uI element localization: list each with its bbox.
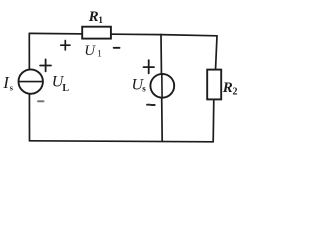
svg-text:U: U (84, 43, 96, 59)
wire top (29, 33, 217, 35)
resistor R1 (82, 27, 111, 39)
label R1 (88, 9, 104, 26)
label - of current source (38, 100, 44, 102)
wire middle (161, 35, 162, 142)
label - of voltage source (147, 104, 155, 106)
label R2 (222, 80, 238, 98)
label UL (52, 74, 70, 94)
voltage source Us (circle with vertical line) (150, 74, 174, 98)
wire bottom (30, 141, 214, 142)
current source Is (circle with horizontal bar) (19, 69, 43, 93)
wire left (28, 33, 30, 140)
svg-text:1: 1 (97, 49, 102, 59)
svg-text:R: R (88, 9, 99, 25)
wire right (213, 36, 217, 142)
label - of U1 (114, 47, 120, 49)
svg-text:1: 1 (98, 16, 103, 26)
label + of voltage source (144, 60, 155, 73)
svg-text:2: 2 (233, 87, 238, 98)
label + of U1 (61, 41, 70, 50)
label Is (2, 73, 13, 93)
svg-text:s: s (142, 84, 146, 94)
label + of current source (40, 59, 51, 71)
label Us (132, 76, 147, 93)
svg-text:R: R (222, 80, 233, 96)
svg-text:L: L (62, 83, 69, 94)
resistor R2 (207, 70, 221, 100)
label U1 (84, 43, 102, 59)
